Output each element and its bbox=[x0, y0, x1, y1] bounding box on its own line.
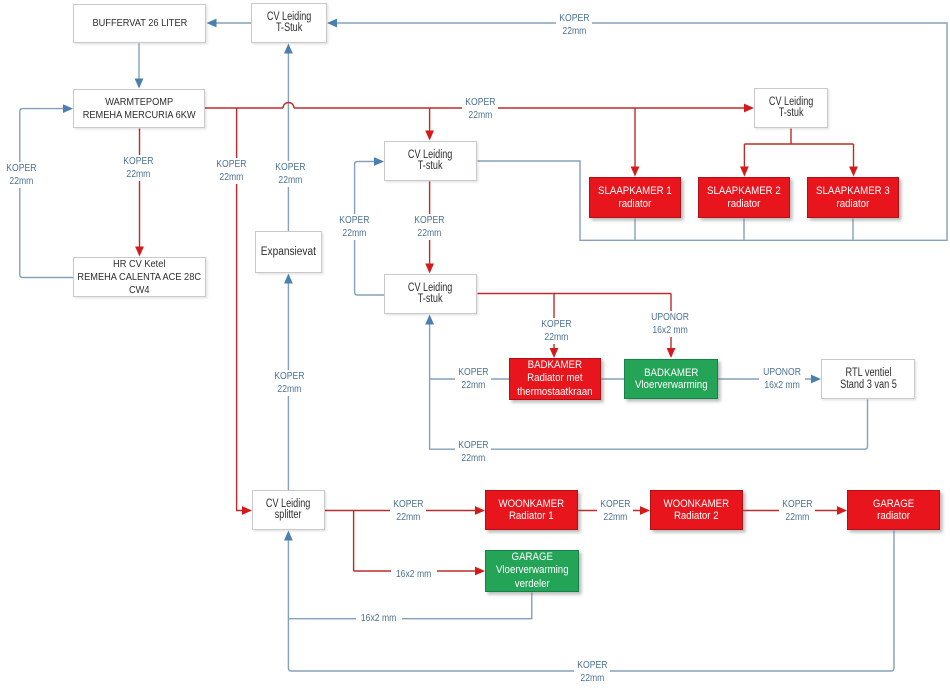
wire: garage verdeler return bbox=[288, 593, 531, 619]
wire: top T-stuk to buffervat bbox=[215, 22, 251, 24]
arrow into warmtepomp left bbox=[63, 104, 73, 113]
label koper 22mm woonkamer1-2 bbox=[597, 498, 633, 524]
wire: top T-stuk down to expansievat bbox=[287, 52, 289, 231]
label koper 22mm top bbox=[556, 12, 592, 38]
label koper 22mm splitter-woonkamer1 bbox=[390, 498, 426, 524]
label koper 22mm far left bbox=[3, 162, 39, 188]
wire: T-stuk2 right to badkamer drops bbox=[478, 294, 672, 350]
arrow into T-stuk2 top bbox=[425, 264, 434, 274]
wire: splitter bottom loop bbox=[288, 531, 894, 672]
arrow into badkamer vloerverwarming top bbox=[667, 348, 676, 358]
arrow into T-stuk1 left bbox=[374, 157, 384, 166]
wire: badkamer return line to RTL bbox=[430, 378, 812, 380]
label koper 22mm badkamer return bbox=[455, 366, 491, 392]
label 16x2 mm garage branch bbox=[391, 568, 437, 581]
wire: red drop to splitter bbox=[237, 108, 243, 511]
label uponor rtl bbox=[759, 366, 805, 392]
wire: slaapkamer 1 return drop bbox=[634, 219, 636, 241]
arrow into T-stuk1 top bbox=[425, 131, 434, 141]
node WOONKAMER radiator 2 bbox=[650, 490, 743, 530]
label koper 22mm expansievat line bbox=[272, 161, 308, 187]
node CV Leiding T-stuk right bbox=[754, 88, 828, 128]
label koper 22mm expansievat-splitter bbox=[271, 370, 307, 396]
wire: right T-stuk bracket to slaapkamer 2/3 bbox=[744, 129, 853, 169]
arrow into top T-stuk right bbox=[327, 19, 337, 28]
label 16x2 mm bottom return bbox=[356, 612, 402, 625]
wire: woonkamer2 to garage radiator bbox=[743, 510, 838, 512]
wire: red main warmtepomp to right T-stuk with hop bbox=[205, 103, 745, 109]
arrow into slaapkamer2 top bbox=[740, 167, 749, 177]
label uponor badkamer supply bbox=[647, 311, 693, 337]
wire: slaapkamer 2 return drop bbox=[743, 219, 745, 241]
wire: red drop to T-stuk1 bbox=[429, 108, 431, 132]
wire: woonkamer1 to woonkamer2 bbox=[578, 510, 641, 512]
label koper 22mm wp-hr bbox=[120, 155, 156, 181]
wire: expansievat down to splitter bbox=[287, 282, 289, 490]
node SLAAPKAMER 3 bbox=[807, 177, 899, 218]
wire: T-stuk2 left to T-stuk1 bbox=[355, 162, 384, 296]
node Expansievat bbox=[255, 231, 322, 273]
arrow into splitter left bbox=[242, 506, 252, 515]
node WARMTEPOMP bbox=[73, 89, 205, 128]
wire: buffervat to warmtepomp bbox=[138, 44, 140, 81]
node SLAAPKAMER 2 bbox=[698, 177, 790, 218]
label koper 22mm t2-t1 blue bbox=[336, 214, 372, 240]
node BADKAMER vloerverwarming bbox=[624, 359, 718, 399]
wire: T-stuk1 to T-stuk2 bbox=[429, 182, 431, 266]
arrow into right T-stuk left bbox=[744, 104, 754, 113]
arrow into woonkamer2 left bbox=[640, 506, 650, 515]
node BUFFERVAT bbox=[73, 4, 206, 43]
wire: red drop to slaapkamer1 bbox=[634, 108, 636, 168]
arrow up into splitter bottom bbox=[284, 531, 293, 541]
arrow into buffervat right bbox=[207, 19, 217, 28]
node CV Leiding T-stuk mid2 bbox=[384, 274, 477, 314]
wire: T-stuk2 bottom return bus bbox=[430, 323, 868, 449]
label koper 22mm bottom bbox=[574, 659, 610, 685]
arrow into slaapkamer1 top bbox=[631, 167, 640, 177]
arrow into badkamer radiator top bbox=[550, 348, 559, 358]
node HR CV Ketel bbox=[73, 257, 206, 297]
node WOONKAMER radiator 1 bbox=[485, 490, 578, 530]
node GARAGE vloerverwarming verdeler bbox=[485, 550, 579, 592]
arrow into warmtepomp top bbox=[135, 79, 144, 89]
arrow into woonkamer1 left bbox=[475, 506, 485, 515]
wire: top return bus right side bbox=[336, 23, 947, 240]
label koper 22mm woonkamer2-garage bbox=[779, 498, 815, 524]
arrow into RTL ventiel left bbox=[811, 375, 821, 384]
arrow into garage radiator left bbox=[837, 506, 847, 515]
node CV Leiding T-stuk mid1 bbox=[384, 141, 477, 181]
label koper 22mm badkamer supply bbox=[538, 318, 574, 344]
arrow into hr ketel top bbox=[135, 247, 144, 257]
arrow into garage verdeler left bbox=[475, 567, 485, 576]
arrow up into expansievat bottom bbox=[284, 274, 293, 284]
label koper 22mm main line bbox=[462, 96, 498, 122]
wire: hr ketel left loop to warmtepomp bbox=[20, 109, 73, 278]
arrow up into T-stuk2 bottom bbox=[425, 315, 434, 325]
node CV Leiding splitter bbox=[252, 490, 325, 530]
label koper 22mm t1-t2 red bbox=[411, 214, 447, 240]
node RTL ventiel bbox=[821, 359, 915, 399]
arrow up into top T-stuk bottom bbox=[284, 44, 293, 54]
wire: slaapkamer 3 return drop bbox=[852, 219, 854, 241]
label koper 22mm red splitter drop bbox=[213, 158, 249, 184]
node CV Leiding T-Stuk top bbox=[251, 3, 327, 43]
node SLAAPKAMER 1 bbox=[589, 177, 681, 218]
arrow into slaapkamer3 top bbox=[849, 167, 858, 177]
node BADKAMER radiator bbox=[509, 358, 601, 400]
wire: warmtepomp to hr ketel bbox=[139, 129, 141, 249]
label koper 22mm rtl return bbox=[455, 439, 491, 465]
wire: splitter to woonkamer1 + garage verdeler branch bbox=[325, 511, 476, 572]
node GARAGE radiator bbox=[847, 490, 940, 530]
